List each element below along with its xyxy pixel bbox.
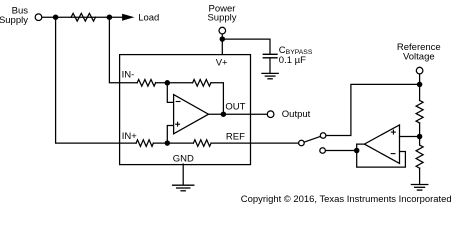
ground (bypass cap): [262, 73, 278, 78]
node: bus junction 2: [107, 14, 113, 20]
op-amp U1 plus sign: [175, 122, 180, 127]
node: buffer output junction: [354, 148, 360, 154]
node C (divider mid junction): [417, 134, 423, 140]
wire R6 to node C: [419, 123, 421, 145]
wire second vertical to IN-: [109, 17, 137, 83]
wire R2 to node A: [156, 82, 193, 84]
svg-text:V+: V+: [216, 58, 228, 69]
op-amp U1 box (difference amplifier): [120, 55, 251, 165]
svg-text:GND: GND: [173, 153, 194, 164]
wire REF to switch pole: [211, 142, 298, 144]
wire R5 to node B: [153, 142, 193, 144]
wire buffer + input: [400, 136, 420, 138]
op-amp U1 minus sign: [176, 101, 181, 103]
op-amp U2 triangle (buffer): [364, 125, 399, 163]
wire GND pin: [182, 164, 184, 185]
wire node B to non-inverting input: [167, 126, 173, 144]
wire power to bypass cap: [222, 39, 270, 54]
wire buffer output to node: [357, 144, 406, 167]
terminal: power supply: [219, 27, 226, 34]
svg-text:Output: Output: [282, 109, 311, 120]
resistor R6 (divider top): [416, 100, 423, 123]
terminal: reference voltage: [416, 67, 423, 74]
wire bus supply rail: [42, 16, 123, 18]
terminal: output: [267, 111, 274, 118]
resistor R3 (feedback): [193, 80, 211, 87]
wire switch upper contact to reference node: [326, 84, 417, 135]
svg-text:OUT: OUT: [225, 101, 245, 112]
capacitor C_BYPASS: [263, 54, 277, 58]
node: OUT junction: [221, 111, 227, 117]
wire reference voltage vertical: [419, 74, 421, 100]
svg-text:Supply: Supply: [0, 15, 28, 26]
resistor R7 (divider bottom): [416, 145, 423, 168]
wire R3 to OUT node: [211, 83, 224, 114]
terminal: bus supply: [35, 14, 42, 21]
node: reference top junction: [417, 82, 423, 88]
svg-text:Copyright © 2016, Texas Instru: Copyright © 2016, Texas Instruments Inco…: [241, 194, 451, 205]
switch lever: [304, 136, 321, 142]
terminal circles: [35, 14, 423, 153]
op-amp U1 triangle: [174, 95, 209, 134]
switch pole contact: [299, 140, 305, 146]
wire switch lower contact to buffer output node: [325, 150, 356, 152]
switch upper throw contact: [320, 133, 326, 139]
wire node A to inverting input: [167, 83, 173, 103]
node B (non-inverting network): [165, 140, 171, 146]
svg-text:0.1 µF: 0.1 µF: [279, 55, 306, 66]
svg-text:REF: REF: [226, 131, 245, 142]
op-amp U2 minus sign: [391, 153, 396, 155]
resistor R1 (bus series): [71, 13, 95, 21]
svg-text:Supply: Supply: [207, 13, 236, 24]
svg-text:Voltage: Voltage: [403, 52, 435, 63]
node A (inverting network): [165, 80, 171, 86]
resistor R2 (IN- series): [137, 80, 155, 87]
ground (main GND): [173, 185, 194, 191]
node: bus junction 1: [53, 14, 59, 20]
wire left vertical to IN+: [56, 17, 137, 143]
wire R7 to ground: [419, 168, 421, 184]
resistor R5 (IN+ series): [136, 140, 153, 147]
resistor R4 (REF series): [193, 140, 211, 147]
wire power supply down to V+: [221, 34, 223, 54]
op-amp U2 plus sign: [391, 130, 396, 135]
arrow to Load: [122, 14, 134, 21]
node: power supply junction: [220, 36, 226, 42]
ground (divider): [411, 185, 427, 191]
wire OUT line: [209, 113, 268, 115]
switch lower throw contact: [320, 148, 326, 154]
svg-text:IN-: IN-: [122, 69, 135, 80]
svg-text:Load: Load: [138, 12, 159, 23]
svg-text:IN+: IN+: [122, 131, 138, 142]
